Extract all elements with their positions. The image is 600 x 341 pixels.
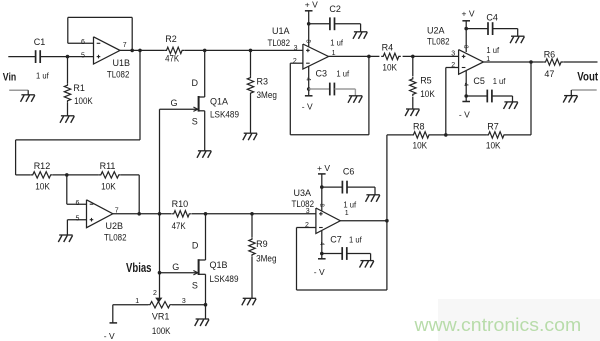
svg-text:1 uf: 1 uf xyxy=(349,235,362,245)
svg-text:10K: 10K xyxy=(382,62,397,72)
svg-text:3: 3 xyxy=(294,45,298,52)
svg-text:TL082: TL082 xyxy=(427,37,450,47)
svg-text:U3A: U3A xyxy=(294,188,312,198)
svg-text:5: 5 xyxy=(81,52,85,59)
svg-text:U1A: U1A xyxy=(272,26,290,36)
svg-text:D: D xyxy=(192,240,199,250)
svg-text:3Meg: 3Meg xyxy=(257,90,277,100)
svg-text:100K: 100K xyxy=(74,96,93,106)
svg-text:3: 3 xyxy=(451,51,455,58)
svg-text:TL082: TL082 xyxy=(268,38,291,48)
svg-text:U1B: U1B xyxy=(113,58,131,68)
svg-text:+ V: + V xyxy=(317,163,330,173)
svg-text:U2A: U2A xyxy=(427,25,445,35)
svg-text:www.cntronics.com: www.cntronics.com xyxy=(413,315,581,335)
svg-text:47K: 47K xyxy=(165,54,179,64)
svg-text:R4: R4 xyxy=(382,42,394,52)
svg-text:S: S xyxy=(192,116,198,126)
svg-text:47K: 47K xyxy=(172,221,186,231)
svg-text:1: 1 xyxy=(135,298,139,305)
svg-text:LSK489: LSK489 xyxy=(210,110,239,120)
svg-text:10K: 10K xyxy=(35,181,50,191)
svg-text:7: 7 xyxy=(123,42,127,49)
svg-text:- V: - V xyxy=(302,101,313,111)
svg-text:6: 6 xyxy=(81,39,85,46)
svg-text:TL082: TL082 xyxy=(292,199,315,209)
svg-text:1: 1 xyxy=(345,210,349,217)
svg-text:3: 3 xyxy=(182,298,186,305)
svg-text:1 uf: 1 uf xyxy=(36,70,49,80)
svg-text:+ V: + V xyxy=(305,0,318,10)
svg-text:C1: C1 xyxy=(34,37,46,47)
svg-text:C2: C2 xyxy=(329,4,341,14)
svg-text:TL082: TL082 xyxy=(104,233,127,243)
svg-text:1 uf: 1 uf xyxy=(330,37,343,47)
svg-text:C5: C5 xyxy=(473,76,485,86)
svg-text:47: 47 xyxy=(544,69,554,79)
svg-text:R6: R6 xyxy=(544,50,556,60)
svg-text:6: 6 xyxy=(76,200,80,207)
svg-text:G: G xyxy=(171,98,178,108)
svg-text:2: 2 xyxy=(153,290,157,297)
svg-text:U2B: U2B xyxy=(106,221,124,231)
svg-text:- V: - V xyxy=(314,267,325,277)
svg-text:G: G xyxy=(172,262,179,272)
svg-text:C6: C6 xyxy=(343,167,355,177)
svg-text:1 uf: 1 uf xyxy=(486,45,499,55)
svg-text:R12: R12 xyxy=(34,161,51,171)
svg-text:R11: R11 xyxy=(100,161,116,171)
svg-text:R3: R3 xyxy=(257,77,269,87)
svg-text:Vin: Vin xyxy=(3,71,17,83)
svg-text:R2: R2 xyxy=(165,34,177,44)
svg-text:Q1B: Q1B xyxy=(210,260,228,270)
svg-text:S: S xyxy=(192,281,198,291)
svg-text:10K: 10K xyxy=(420,89,435,99)
svg-text:1 uf: 1 uf xyxy=(343,199,356,209)
svg-text:Q1A: Q1A xyxy=(210,97,228,107)
svg-text:R7: R7 xyxy=(487,122,499,132)
svg-text:1 uf: 1 uf xyxy=(493,76,506,86)
svg-text:- V: - V xyxy=(104,331,115,341)
svg-text:10K: 10K xyxy=(486,140,501,150)
svg-text:D: D xyxy=(192,78,199,88)
svg-text:Vout: Vout xyxy=(577,70,598,84)
svg-text:3: 3 xyxy=(306,208,310,215)
svg-text:C3: C3 xyxy=(316,68,328,78)
svg-text:R1: R1 xyxy=(73,83,85,93)
svg-text:TL082: TL082 xyxy=(107,69,129,79)
svg-text:R5: R5 xyxy=(420,76,432,86)
svg-text:+ V: + V xyxy=(462,9,475,19)
svg-text:Vbias: Vbias xyxy=(126,261,152,275)
svg-text:VR1: VR1 xyxy=(152,312,170,322)
svg-text:LSK489: LSK489 xyxy=(210,274,239,284)
svg-text:C7: C7 xyxy=(330,235,342,245)
svg-text:10K: 10K xyxy=(413,140,428,150)
svg-text:- V: - V xyxy=(459,109,470,119)
svg-text:3Meg: 3Meg xyxy=(256,253,276,263)
svg-text:5: 5 xyxy=(76,216,80,223)
svg-text:R9: R9 xyxy=(256,239,268,249)
svg-text:R10: R10 xyxy=(172,199,189,209)
svg-text:C4: C4 xyxy=(486,13,498,23)
svg-text:R8: R8 xyxy=(413,122,425,132)
svg-text:1 uf: 1 uf xyxy=(336,68,349,78)
svg-text:10K: 10K xyxy=(101,181,116,191)
svg-text:100K: 100K xyxy=(152,326,171,336)
